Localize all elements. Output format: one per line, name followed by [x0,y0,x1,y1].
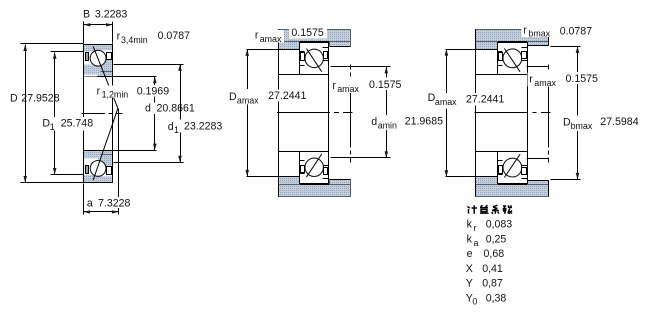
bottom cell ball [90,161,106,177]
bearing right face line [112,45,114,183]
svg-text:r: r [523,25,527,37]
svg-text:r: r [332,80,336,92]
svg-text:a: a [87,197,93,209]
outer ring lines bottom cell [300,173,305,175]
bearing face lines [527,43,529,184]
label Damax 27.2441 [228,89,260,105]
dimension damin line [386,67,388,158]
svg-text:1: 1 [174,125,179,135]
dimension Damax line [247,50,249,177]
dimension d1 line [180,65,182,163]
value 0.1575 top on bar [289,25,327,38]
top cell cage left [86,53,89,61]
housing bottom bar [279,185,351,197]
axis centerline [475,112,551,114]
svg-text:amin: amin [378,121,397,131]
svg-text:r: r [117,30,121,42]
inner ring step line bottom [101,154,113,156]
dimension B line [84,24,113,26]
bearing top cell [498,43,528,75]
svg-text:0,41: 0,41 [482,263,503,275]
svg-text:r: r [529,74,533,86]
svg-text:D: D [10,93,18,105]
svg-text:d: d [371,116,377,128]
dimension d line [154,77,156,151]
housing bore line top [476,41,549,43]
svg-text:7.3228: 7.3228 [98,197,131,209]
label ramax top [254,30,285,43]
svg-text:0.0787: 0.0787 [560,26,593,38]
label ramax right mid [527,73,558,87]
svg-text:0,68: 0,68 [484,248,505,260]
svg-text:0.1575: 0.1575 [566,73,599,85]
svg-text:Y: Y [466,278,473,290]
ball top cell [503,49,522,68]
contact line bottom cell [306,154,321,177]
bearing face lines [328,43,330,184]
inner ring shoulder extension top [527,66,549,68]
dimension d extension lines [113,76,157,78]
housing top bar [476,30,549,42]
svg-text:d: d [168,121,174,133]
value 0.1575 right mid [564,72,601,84]
axis centerline [82,113,123,115]
contact point vertical [118,109,120,215]
bottom cell cage pocket right [107,167,112,175]
dimension Damax line [446,50,448,177]
svg-text:0.1575: 0.1575 [369,79,402,91]
svg-text:D: D [229,91,237,103]
label d1 23.2283 [166,120,228,133]
svg-text:20.8661: 20.8661 [157,102,195,114]
inner ring step line top [101,71,113,73]
bearing left face line [83,45,85,183]
dimension Dbmax extension lines [551,46,581,48]
dimension D1 line [54,53,56,175]
svg-text:0,083: 0,083 [486,219,513,231]
svg-text:0.1969: 0.1969 [137,85,170,97]
housing shoulder top-left [476,42,498,50]
svg-text:amax: amax [534,78,556,88]
svg-text:23.2283: 23.2283 [184,120,222,132]
svg-text:3,4min: 3,4min [121,35,148,45]
contact line bottom cell [504,154,520,177]
abutment ring edge extension dash line [548,65,550,163]
svg-text:k: k [467,234,473,246]
abutment ring top-right [330,42,351,47]
svg-text:bmax: bmax [571,121,593,131]
label Damax 27.2441 [427,93,459,109]
abutment ring bottom-right [528,181,549,185]
label r1,2min 0.1969 [95,85,130,98]
svg-text:bmax: bmax [528,29,550,39]
svg-text:e: e [467,248,473,260]
ball bottom cell [305,158,323,176]
svg-text:27.2441: 27.2441 [466,94,504,106]
svg-text:d: d [145,102,151,114]
outer ring lines top cell [300,51,305,53]
label damin 21.9685 [370,115,400,130]
bottom cell cage left [86,166,89,174]
cage pockets top cell [499,53,503,61]
svg-text:a: a [474,238,479,248]
axis centerline [277,112,353,114]
shaft surface bottom [279,151,300,153]
svg-text:amax: amax [435,97,457,107]
svg-text:0,38: 0,38 [486,292,507,304]
bearing bottom cell [498,152,528,184]
top cell bore strip [84,74,98,76]
svg-text:27.2441: 27.2441 [268,90,306,102]
label a 7.3228 [85,197,134,208]
abutment ring bottom-right [330,180,351,185]
top cell ball [90,50,106,66]
svg-text:k: k [467,219,473,231]
svg-text:r: r [474,223,477,233]
contact line top [93,47,118,109]
outer ring lines bottom cell [498,174,503,176]
contact line top cell [504,48,520,71]
abutment ring top-right [528,42,549,46]
label D1 25.748 [41,117,95,131]
bottom cell white waist [84,158,112,176]
top cell cage pocket right [107,53,112,60]
housing left edge [475,30,477,197]
bearing bottom cell body [84,151,113,183]
housing shoulder bottom-left [476,177,498,185]
housing bottom bar [476,185,549,197]
dimension Damax extension lines [446,49,476,51]
dimension D extension lines [21,43,84,45]
dimension damin extension lines [331,66,391,68]
svg-text:amax: amax [260,34,282,44]
label ramax right [331,79,362,93]
ball bottom cell [503,158,522,177]
housing right edge [548,30,550,46]
shaft surface top [279,74,300,76]
value 0.1575 right [367,78,404,91]
svg-text:25.748: 25.748 [61,117,94,129]
svg-text:3.2283: 3.2283 [95,9,128,21]
shaft surface top [476,74,498,76]
cage pockets bottom cell [499,166,503,174]
dimension a line [84,211,119,213]
svg-text:27.5984: 27.5984 [600,116,638,128]
label Dbmax 27.5984 [562,115,594,131]
glyph 算 [480,205,489,213]
contact line top cell [306,49,321,72]
svg-text:0,87: 0,87 [482,278,503,290]
header 计算系数 (drawn glyphs) [467,205,512,214]
svg-text:1,2min: 1,2min [102,89,129,99]
glyph 系 [492,205,500,214]
housing left edge [278,30,280,197]
svg-text:amax: amax [237,95,259,105]
bearing top cell body [84,45,113,77]
svg-text:1: 1 [50,122,55,132]
dimension B extension lines [83,22,85,44]
glyph 数 [503,205,512,214]
svg-text:27.9528: 27.9528 [21,93,59,105]
dimension Dbmax line [577,47,579,180]
cage pockets bottom cell [301,166,305,173]
bearing top cell [300,43,329,75]
bearing bottom cell [300,152,329,184]
housing shoulder bottom-left [279,177,300,185]
svg-text:X: X [466,263,473,275]
dimension a extension line right [83,184,85,215]
glyph 计 [467,205,477,214]
svg-text:0.0787: 0.0787 [158,30,191,42]
shaft surface bottom [476,151,498,153]
label d 20.8661 [143,103,201,114]
top cell white waist [84,50,112,64]
svg-text:0: 0 [472,297,477,307]
ball top cell [305,49,323,67]
contact line bottom [93,108,118,180]
abutment ring edge extension dash line [350,65,352,163]
svg-text:21.9685: 21.9685 [405,116,443,128]
svg-text:0,25: 0,25 [486,234,507,246]
outer ring lines top cell [498,51,503,53]
label rbmax 0.0787 top [522,25,553,37]
svg-text:r: r [97,85,101,97]
svg-text:r: r [255,30,259,42]
svg-text:B: B [83,9,90,21]
inner ring shoulder extension bottom [527,158,549,160]
dimension Damax extension lines [247,49,300,51]
dimension D1 extension lines [51,51,84,53]
dimension D line [25,45,27,183]
svg-text:amax: amax [337,84,359,94]
housing shoulder top-left [279,42,300,50]
housing bore line bottom [476,184,549,186]
svg-text:0.1575: 0.1575 [291,27,324,39]
cage pockets top cell [301,53,305,61]
housing bore line top [279,41,351,43]
housing bore line bottom [279,184,351,186]
dimension d1 extension lines [114,64,184,66]
housing top bar [279,30,351,42]
